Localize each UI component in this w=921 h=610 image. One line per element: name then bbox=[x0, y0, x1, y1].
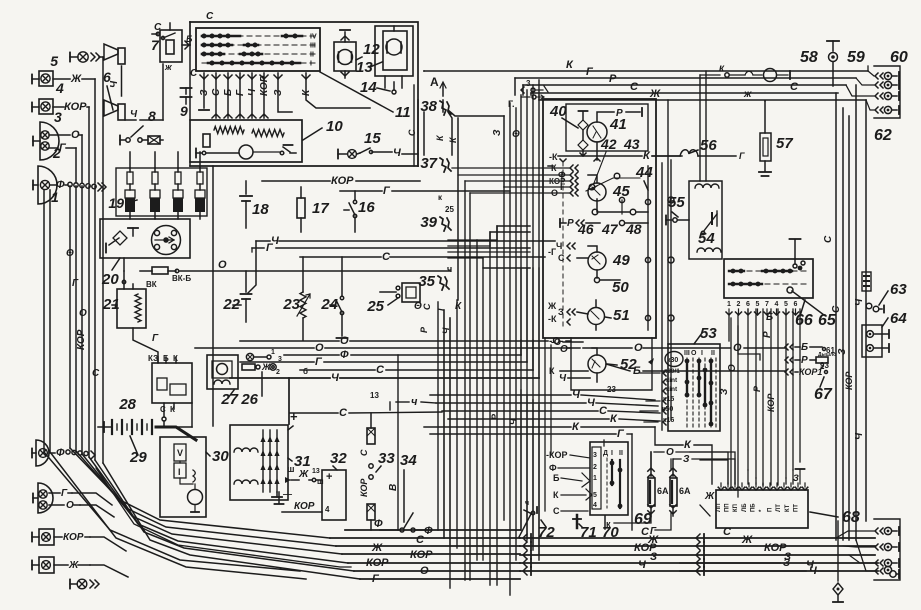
svg-text:Г: Г bbox=[152, 333, 159, 344]
fuse block 53 columns bbox=[685, 358, 716, 427]
svg-text:2: 2 bbox=[593, 464, 597, 471]
wires into 53 bbox=[640, 373, 660, 422]
wire С vertical 38-37 bbox=[407, 112, 424, 155]
svg-text:Г: Г bbox=[235, 89, 246, 96]
starter cable bbox=[156, 427, 196, 440]
svg-text:Ч: Ч bbox=[130, 109, 138, 120]
svg-text:кint: кint bbox=[666, 386, 678, 393]
svg-text:32: 32 bbox=[330, 450, 347, 467]
svg-text:5: 5 bbox=[784, 301, 788, 308]
svg-text:КТ: КТ bbox=[785, 504, 791, 512]
svg-text:О: О bbox=[551, 188, 558, 198]
socket 68 labels bbox=[716, 503, 799, 512]
harness labels centre bbox=[490, 129, 520, 425]
svg-text:31: 31 bbox=[294, 453, 311, 470]
wires left of 68 bbox=[690, 452, 735, 484]
wire Ж top bbox=[539, 88, 866, 100]
svg-text:3: 3 bbox=[278, 356, 282, 363]
svg-text:О: О bbox=[79, 308, 87, 319]
svg-text:1: 1 bbox=[271, 349, 275, 356]
relay 54 55 box bbox=[689, 181, 722, 259]
right harness labels bbox=[823, 235, 865, 440]
svg-text:9: 9 bbox=[180, 103, 188, 119]
earth diamond bottom bbox=[833, 521, 843, 602]
svg-text:О: О bbox=[691, 350, 697, 357]
battery 29 cells bbox=[112, 420, 192, 466]
wire Ж 68 bbox=[700, 491, 715, 516]
svg-text:14: 14 bbox=[360, 79, 377, 96]
label 6 bbox=[103, 69, 113, 110]
left harness diagonal fan bbox=[70, 448, 360, 579]
svg-text:Ф: Ф bbox=[340, 349, 349, 361]
svg-text:56: 56 bbox=[700, 137, 717, 154]
lever 71 bbox=[573, 515, 597, 541]
capacitor 9 bbox=[180, 68, 198, 119]
gauge wires 45 bbox=[586, 173, 648, 215]
connector block bottom right box bbox=[874, 519, 900, 580]
left harness vertical wires bbox=[70, 186, 103, 463]
svg-text:Ч: Ч bbox=[331, 372, 339, 384]
wire С y370 bbox=[300, 340, 533, 376]
svg-text:10: 10 bbox=[326, 118, 343, 135]
svg-text:38: 38 bbox=[420, 98, 437, 115]
svg-text:Ф: Ф bbox=[424, 525, 433, 537]
label 31 bbox=[288, 453, 311, 470]
svg-text:42: 42 bbox=[600, 136, 617, 152]
svg-text:КОР1: КОР1 bbox=[799, 367, 822, 377]
labels 66 65 bbox=[792, 291, 837, 329]
svg-text:-К: -К bbox=[549, 152, 558, 162]
label 19 bbox=[108, 195, 137, 211]
gauge 51 bbox=[588, 307, 630, 325]
wire КОР y181 bbox=[262, 175, 420, 187]
svg-text:З: З bbox=[837, 348, 848, 355]
wire З bottom long bbox=[680, 557, 836, 569]
wire from lamp 5 bbox=[102, 57, 104, 183]
wire Ч y378 bend to alternator bbox=[288, 378, 290, 424]
switch 72 bbox=[519, 500, 555, 541]
label 50 bbox=[612, 279, 629, 296]
svg-text:С: С bbox=[211, 88, 222, 96]
svg-text:КОР: КОР bbox=[410, 549, 433, 561]
horn 6 upper bbox=[104, 44, 125, 64]
svg-text:29: 29 bbox=[129, 449, 147, 466]
label 23 small bbox=[607, 385, 616, 394]
label 54 bbox=[698, 230, 715, 247]
connector block bottom right pins bbox=[875, 527, 899, 578]
wires below 69 bbox=[604, 440, 671, 537]
svg-text:С: С bbox=[376, 364, 385, 376]
svg-text:55: 55 bbox=[668, 194, 685, 211]
svg-text:5: 5 bbox=[50, 53, 58, 69]
svg-text:КОР: КОР bbox=[359, 478, 369, 497]
wire Г y362 bbox=[240, 356, 527, 368]
connector 44 marks bbox=[635, 160, 674, 420]
bottom harness right segment bbox=[520, 538, 878, 571]
battery 29 bbox=[98, 422, 112, 432]
fuse 69 left bbox=[648, 452, 669, 516]
svg-text:1: 1 bbox=[727, 301, 731, 308]
voltage regulator 30 box bbox=[160, 437, 229, 517]
alternator output wires bbox=[275, 409, 325, 512]
sender 40 symbols bbox=[549, 103, 588, 156]
svg-text:59: 59 bbox=[847, 49, 865, 66]
bottom harness right labels bbox=[634, 526, 814, 571]
svg-text:13: 13 bbox=[370, 391, 379, 400]
svg-text:5: 5 bbox=[593, 492, 597, 499]
svg-text:Ч: Ч bbox=[854, 432, 865, 440]
wire Ж to 57 bbox=[764, 100, 766, 102]
svg-text:О: О bbox=[420, 565, 429, 577]
wire А down bbox=[442, 100, 444, 112]
svg-text:3: 3 bbox=[593, 452, 597, 459]
wire К top bbox=[424, 59, 868, 71]
svg-text:50: 50 bbox=[612, 279, 629, 296]
label 20 bbox=[101, 258, 120, 288]
wire С y413 bbox=[290, 407, 442, 419]
svg-text:I: I bbox=[310, 61, 312, 68]
regulator 32 bbox=[322, 450, 347, 520]
connector Б-61 bbox=[785, 342, 835, 355]
relay block 66 box bbox=[724, 259, 813, 298]
svg-text:КЗ: КЗ bbox=[148, 354, 158, 363]
relay 28 bbox=[118, 354, 192, 414]
svg-text:8: 8 bbox=[148, 108, 156, 124]
svg-text:II: II bbox=[711, 350, 715, 357]
svg-text:72: 72 bbox=[538, 524, 555, 541]
svg-text:IV: IV bbox=[310, 34, 317, 41]
svg-text:4: 4 bbox=[593, 502, 597, 509]
svg-text:Г: Г bbox=[739, 151, 745, 161]
svg-text:7: 7 bbox=[151, 37, 160, 53]
svg-text:Г: Г bbox=[72, 278, 79, 289]
svg-text:18: 18 bbox=[252, 201, 269, 218]
svg-text:+: + bbox=[290, 409, 298, 424]
wire Ч y378 bbox=[230, 367, 539, 384]
wires from bottom-left lamps bbox=[80, 493, 128, 577]
wire О y348 bbox=[195, 342, 571, 354]
svg-text:Ч: Ч bbox=[109, 80, 120, 88]
svg-text:35: 35 bbox=[418, 273, 435, 290]
svg-text:КОР: КОР bbox=[294, 501, 315, 512]
svg-text:2: 2 bbox=[737, 301, 741, 308]
horn wires bbox=[109, 64, 163, 120]
wires 69 bbox=[651, 447, 735, 484]
svg-text:ж: ж bbox=[743, 89, 752, 100]
connector block 60 box bbox=[874, 66, 900, 118]
variable resistor 23 bbox=[282, 257, 310, 340]
relay block 66 row2 bbox=[729, 282, 806, 293]
wires below 35 bbox=[414, 301, 462, 334]
wire ВК-Б with resistor bbox=[140, 259, 450, 283]
svg-text:13: 13 bbox=[312, 468, 320, 475]
svg-text:63: 63 bbox=[890, 281, 907, 298]
svg-text:12: 12 bbox=[363, 41, 380, 58]
svg-text:44: 44 bbox=[635, 164, 653, 181]
svg-text:З: З bbox=[719, 388, 730, 395]
svg-text:23: 23 bbox=[282, 296, 300, 313]
svg-text:33: 33 bbox=[378, 450, 395, 467]
svg-text:Г.: Г. bbox=[508, 99, 514, 109]
relay 54 coil top bbox=[695, 184, 719, 188]
wires under switch 11 bbox=[199, 73, 370, 118]
fuse 33 upper bbox=[359, 413, 375, 497]
wire 20 to 21 bbox=[123, 258, 125, 282]
capacitor 18 bbox=[240, 181, 269, 228]
wire colour labels under 11 bbox=[199, 75, 312, 96]
relay К30 oval bbox=[665, 352, 683, 367]
svg-text:4: 4 bbox=[325, 505, 330, 514]
pins 51 bbox=[547, 300, 596, 330]
svg-text:О: О bbox=[315, 342, 324, 354]
motor 13 bbox=[356, 26, 413, 76]
svg-text:6А: 6А bbox=[657, 486, 669, 496]
svg-text:4: 4 bbox=[775, 301, 779, 308]
wires into 70 bbox=[546, 450, 592, 516]
svg-text:43: 43 bbox=[623, 136, 640, 152]
fuse block 53 left arrows bbox=[663, 370, 666, 425]
svg-text:З: З bbox=[793, 473, 799, 483]
svg-text:6: 6 bbox=[794, 301, 798, 308]
alternator 31 box bbox=[230, 425, 288, 500]
svg-text:Ж: Ж bbox=[371, 542, 383, 554]
svg-text:51: 51 bbox=[613, 307, 630, 324]
wires Р 46 47 48 bbox=[560, 218, 648, 237]
svg-text:КОР: КОР bbox=[64, 101, 87, 113]
svg-text:7: 7 bbox=[765, 301, 769, 308]
wire к 56 bbox=[652, 151, 745, 161]
label 69 bbox=[634, 511, 652, 528]
ignition unit 20 box bbox=[100, 219, 190, 258]
svg-text:Р: Р bbox=[801, 355, 808, 366]
svg-text:С: С bbox=[558, 253, 565, 263]
bottom harness connectors mid bbox=[523, 534, 531, 575]
svg-text:Ж: Ж bbox=[547, 301, 557, 311]
svg-text:КП: КП bbox=[733, 504, 739, 512]
svg-text:К: К bbox=[551, 163, 557, 173]
connector Р-Дышло bbox=[785, 352, 836, 371]
thermal 56 bbox=[680, 137, 717, 156]
wires 66 bends bbox=[729, 315, 760, 360]
wire from 13 down bbox=[385, 76, 402, 94]
capacitor 22 bbox=[222, 271, 251, 322]
fog lamp bbox=[32, 557, 90, 573]
svg-text:Ч: Ч bbox=[556, 241, 562, 251]
svg-text:В: В bbox=[388, 484, 399, 491]
labels Р КОР vertical bbox=[752, 385, 776, 412]
fuel gauge unit box bbox=[566, 104, 648, 151]
wires 66-68 upper bends bbox=[748, 470, 793, 485]
svg-text:К: К bbox=[549, 366, 555, 376]
svg-text:КОР: КОР bbox=[63, 532, 84, 543]
outer box bottom right corner bbox=[190, 100, 418, 166]
pins 49 bbox=[548, 241, 620, 283]
svg-text:С: С bbox=[416, 534, 425, 546]
svg-text:4: 4 bbox=[55, 80, 64, 96]
label Б Р below 66 bbox=[762, 312, 773, 338]
distributor 20 internals bbox=[106, 226, 181, 255]
switch 16 bbox=[344, 191, 375, 232]
svg-text:ж: ж bbox=[164, 62, 172, 72]
svg-text:49: 49 bbox=[612, 252, 630, 269]
svg-text:53: 53 bbox=[700, 325, 717, 342]
cluster feed wires left bbox=[452, 168, 570, 193]
switch 24 bbox=[320, 257, 347, 338]
svg-text:З: З bbox=[650, 551, 657, 563]
svg-text:3: 3 bbox=[54, 109, 62, 125]
outer box (lighting unit) bbox=[190, 11, 418, 166]
block 70 internals bbox=[592, 447, 623, 509]
wire Ф switch34 bbox=[380, 529, 400, 531]
svg-text:Р: Р bbox=[752, 385, 762, 392]
svg-text:ЛТ: ЛТ bbox=[776, 504, 782, 512]
gauge 49 bbox=[588, 252, 630, 270]
svg-text:Ж: Ж bbox=[298, 469, 309, 480]
svg-text:Θ: Θ bbox=[512, 129, 520, 140]
label 55 connector bbox=[666, 194, 689, 225]
svg-text:6: 6 bbox=[746, 301, 750, 308]
rear lamp (bottom left, upper) bbox=[32, 440, 95, 466]
svg-text:С: С bbox=[823, 235, 834, 243]
switch 34 bbox=[388, 452, 430, 532]
svg-text:19: 19 bbox=[108, 195, 124, 211]
wires 52 bbox=[549, 337, 597, 384]
wire Г from 38 bbox=[448, 110, 504, 187]
svg-text:С: С bbox=[359, 449, 369, 456]
svg-text:6А: 6А bbox=[679, 486, 691, 496]
bottom harness connectors bbox=[696, 534, 704, 575]
svg-text:Ч: Ч bbox=[559, 373, 567, 384]
svg-text:I: I bbox=[701, 350, 703, 357]
svg-text:Б: Б bbox=[633, 365, 641, 377]
svg-text:Ч: Ч bbox=[638, 559, 646, 571]
svg-text:О: О bbox=[727, 364, 738, 372]
svg-text:54: 54 bbox=[698, 230, 715, 247]
wire 28 to battery bbox=[162, 409, 166, 427]
switch block 70 box bbox=[590, 442, 628, 541]
svg-text:ч: ч bbox=[411, 396, 418, 408]
svg-text:25: 25 bbox=[445, 205, 454, 214]
svg-text:ш: ш bbox=[317, 477, 324, 486]
svg-text:27: 27 bbox=[220, 391, 238, 408]
ignition coil 21 bbox=[102, 280, 157, 328]
wire with connector row from headlamp 1 bbox=[50, 179, 106, 191]
svg-text:Ч: Ч bbox=[809, 565, 817, 577]
wire О across bbox=[592, 342, 786, 354]
svg-text:К: К bbox=[455, 301, 462, 312]
svg-text:А: А bbox=[430, 75, 439, 89]
connector block 60 pins bbox=[875, 72, 899, 114]
svg-text:15: 15 bbox=[364, 130, 381, 147]
fuse block 53 labels bbox=[662, 368, 680, 424]
svg-text:Ч: Ч bbox=[393, 147, 401, 159]
svg-text:КОР: КОР bbox=[844, 371, 854, 390]
wire from lamp 3 bbox=[88, 107, 90, 183]
svg-text:V: V bbox=[177, 448, 183, 458]
centre verticals to bottom bbox=[438, 302, 450, 546]
svg-text:З: З bbox=[683, 454, 690, 465]
long verticals right of cluster bbox=[662, 71, 738, 497]
svg-text:О: О bbox=[340, 335, 349, 347]
wire Б from 52 bbox=[606, 358, 786, 377]
vertical wire from distributor bbox=[212, 166, 214, 426]
svg-text:ПБ: ПБ bbox=[750, 503, 756, 512]
label 14 bbox=[360, 79, 390, 96]
relay block 66 pin numbers bbox=[727, 301, 798, 308]
central vertical harness bbox=[465, 80, 539, 595]
svg-text:Ж: Ж bbox=[704, 491, 715, 502]
cluster right rail bbox=[645, 166, 650, 330]
wire О y341 bbox=[545, 336, 571, 347]
far-left long wires bbox=[44, 190, 306, 579]
svg-text:47: 47 bbox=[601, 221, 619, 237]
svg-text:68: 68 bbox=[842, 509, 860, 526]
svg-text:11: 11 bbox=[395, 104, 411, 121]
svg-text:О: О bbox=[66, 500, 74, 511]
bottom harness left labels bbox=[366, 518, 433, 585]
svg-text:Ч: Ч bbox=[854, 298, 865, 306]
relay 7 bbox=[151, 22, 193, 72]
wires from headlamp 2 bbox=[49, 129, 82, 183]
fuse 69 right bbox=[670, 459, 691, 516]
svg-text:26: 26 bbox=[240, 391, 258, 408]
svg-text:С: С bbox=[790, 81, 799, 93]
svg-text:65: 65 bbox=[818, 312, 837, 329]
svg-text:40: 40 bbox=[549, 103, 567, 120]
alternator 31 internals bbox=[234, 430, 282, 497]
extra fan line bbox=[96, 468, 351, 567]
bottom harness left segment bbox=[330, 530, 520, 579]
connector 26 bbox=[240, 349, 282, 408]
cluster inner rail bbox=[619, 197, 624, 214]
gauge 41 bbox=[587, 116, 640, 183]
wire Г y191 bbox=[340, 185, 510, 197]
svg-text:П: П bbox=[768, 508, 774, 512]
fuse block 53 box bbox=[668, 325, 720, 431]
resistor 57 bbox=[759, 101, 793, 176]
wires into 68 top bbox=[793, 469, 805, 484]
svg-text:С: С bbox=[831, 305, 842, 313]
svg-text:З: З bbox=[273, 89, 284, 96]
central vertical harness lower bbox=[444, 300, 539, 588]
svg-text:64: 64 bbox=[890, 310, 907, 327]
wire Г top bbox=[515, 66, 856, 95]
label 59 bbox=[847, 49, 865, 66]
svg-text:Б: Б bbox=[223, 89, 234, 96]
svg-text:к30/1: к30/1 bbox=[664, 368, 680, 375]
svg-text:ВК: ВК bbox=[146, 280, 157, 289]
svg-text:Ч: Ч bbox=[587, 397, 595, 409]
lamp 3 (front lamp) bbox=[32, 99, 89, 125]
svg-text:ПТ: ПТ bbox=[793, 504, 799, 512]
svg-text:Б: Б bbox=[801, 342, 808, 353]
relay contacts bbox=[701, 211, 717, 235]
wiper unit 10 bbox=[190, 118, 343, 162]
wires K K near 38 bbox=[435, 112, 458, 300]
svg-text:Р: Р bbox=[609, 73, 617, 85]
svg-text:III: III bbox=[684, 350, 690, 357]
svg-text:Р: Р bbox=[419, 326, 429, 333]
svg-text:к30: к30 bbox=[667, 357, 678, 364]
connector 39 bbox=[420, 205, 454, 231]
connector 35 bbox=[418, 264, 452, 290]
connector 64 bbox=[862, 310, 907, 357]
svg-text:Г: Г bbox=[650, 526, 657, 537]
svg-text:Ж: Ж bbox=[70, 73, 82, 85]
svg-text:ч: ч bbox=[447, 264, 452, 274]
svg-text:5: 5 bbox=[756, 301, 760, 308]
svg-text:ВК-Б: ВК-Б bbox=[172, 274, 191, 283]
